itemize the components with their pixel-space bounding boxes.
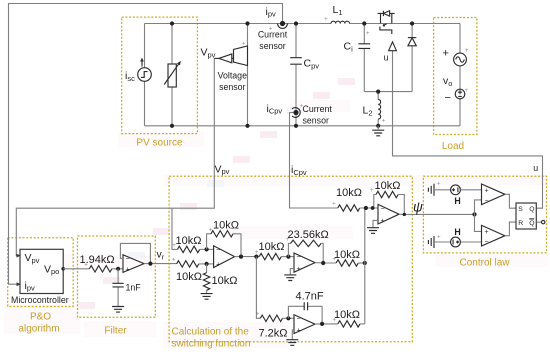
- node op4 feedback tap: [371, 206, 375, 210]
- wire ipv tap loop: [9, 4, 283, 285]
- svg-text:switching function: switching function: [172, 338, 251, 349]
- svg-text:+: +: [324, 17, 328, 23]
- svg-text:Current: Current: [258, 30, 288, 40]
- svg-text:+: +: [209, 227, 213, 233]
- node filter RC: [116, 267, 120, 271]
- ground (op1 divider): [201, 294, 213, 300]
- node top rail / diode branch: [410, 21, 414, 25]
- node top rail / sensor branch: [245, 21, 249, 25]
- svg-text:7.2kΩ: 7.2kΩ: [259, 327, 288, 339]
- comparator top: [482, 184, 505, 205]
- svg-text:sensor: sensor: [303, 115, 329, 125]
- svg-text:−: −: [445, 92, 451, 104]
- resistor 10k (iCpv input): [338, 205, 360, 211]
- op-amp U2: [294, 253, 315, 272]
- input pin Vpv: [17, 254, 22, 258]
- svg-text:−: −: [297, 316, 301, 323]
- svg-text:Q: Q: [529, 206, 534, 213]
- svg-text:10kΩ: 10kΩ: [334, 249, 360, 261]
- svg-text:sensor: sensor: [259, 41, 285, 51]
- wire op2 output: [315, 262, 336, 264]
- wire branch to integrator: [256, 257, 260, 319]
- node filter output: [148, 262, 152, 266]
- AC source vo: [454, 53, 467, 66]
- resistor 23.56k: [291, 240, 322, 246]
- wire op3 output: [315, 323, 338, 325]
- resistor 10k (op3 out): [338, 321, 360, 327]
- op3 plus to ground: [292, 330, 294, 340]
- current sensor ipv: [278, 24, 288, 29]
- node PV top / varistor: [170, 21, 174, 25]
- node op3 output: [320, 322, 324, 326]
- op1 feedback vertical: [207, 234, 211, 250]
- svg-text:10kΩ: 10kΩ: [336, 187, 362, 199]
- svg-text:u: u: [533, 163, 538, 173]
- node op2 output: [321, 261, 325, 265]
- wire psi output: [399, 213, 475, 215]
- wire Cpv branch: [295, 24, 297, 126]
- resistor 10k (vr input): [177, 261, 199, 267]
- watermark tint: [4, 78, 548, 348]
- wire gate signal u: [393, 51, 543, 209]
- Qbar terminal: [536, 221, 541, 223]
- isc arrow: [141, 61, 143, 67]
- svg-text:+: +: [332, 202, 336, 208]
- node op4 fb join: [403, 213, 406, 216]
- svg-text:+: +: [465, 48, 469, 54]
- node op3 minus: [286, 316, 290, 320]
- DC source (load): [455, 89, 465, 99]
- inductor L1: [331, 21, 349, 23]
- svg-text:algorithm: algorithm: [18, 323, 59, 334]
- resistor 10k (Vpv input): [178, 246, 200, 252]
- wire top rail: [145, 23, 461, 25]
- svg-text:+: +: [172, 258, 176, 264]
- current sensor iCpv: [292, 108, 300, 118]
- svg-text:−: −: [485, 198, 489, 205]
- svg-text:H: H: [454, 196, 460, 206]
- svg-text:Calculation of the: Calculation of the: [172, 327, 250, 338]
- svg-text:10kΩ: 10kΩ: [176, 235, 202, 247]
- svg-text:−: −: [485, 239, 489, 246]
- svg-text:ψ: ψ: [413, 200, 423, 215]
- svg-text:Current: Current: [303, 104, 333, 114]
- resistor 10k (op1 feedback): [211, 231, 233, 237]
- wire switch-cell bottom rail: [364, 91, 412, 93]
- resistor 1.94k: [89, 266, 112, 272]
- svg-text:10kΩ: 10kΩ: [259, 241, 285, 253]
- op4 plus to ground: [373, 220, 378, 227]
- node Vpo pin: [61, 267, 65, 271]
- wire vr output: [144, 263, 177, 265]
- svg-text:+: +: [255, 250, 259, 256]
- wire bottom rail: [145, 125, 461, 127]
- svg-text:R: R: [518, 220, 523, 227]
- switching function box: [169, 176, 412, 342]
- svg-text:10kΩ: 10kΩ: [213, 219, 239, 231]
- current source isc: [138, 68, 152, 82]
- wire Ci branch: [363, 24, 365, 92]
- resistor 10k (op4 feedback): [376, 191, 398, 197]
- svg-text:sensor: sensor: [219, 82, 245, 92]
- svg-text:+: +: [443, 48, 449, 60]
- node summing vertical / op2: [363, 261, 367, 265]
- svg-text:Filter: Filter: [104, 326, 127, 337]
- wire L2 branch: [377, 92, 379, 126]
- wire psi to comparators: [475, 200, 482, 232]
- svg-text:+: +: [256, 312, 260, 318]
- wire Vpo to filter: [63, 268, 89, 270]
- svg-text:+: +: [216, 262, 220, 269]
- svg-text:+: +: [286, 237, 290, 243]
- svg-text:4.7nF: 4.7nF: [296, 290, 324, 302]
- op4 feedback loop: [374, 195, 376, 209]
- node bottom rail / Cpv: [294, 124, 298, 128]
- resistor 10k (op2 input): [259, 253, 281, 259]
- capacitor Cpv: [290, 58, 302, 64]
- svg-text:+: +: [172, 243, 176, 249]
- wire Vpv signal: [16, 58, 214, 255]
- svg-text:+: +: [382, 118, 386, 124]
- resistor 10k (op2 out): [336, 260, 358, 266]
- ground (H top): [428, 184, 434, 196]
- wire isc branch: [144, 24, 146, 126]
- svg-text:+: +: [297, 328, 301, 335]
- op-amp U4 (summing): [378, 204, 399, 224]
- op2 feedback loop: [288, 243, 290, 256]
- microcontroller block: [20, 249, 63, 293]
- gate input arrow u: [389, 42, 397, 51]
- svg-text:−: −: [216, 247, 220, 254]
- wire Vpv branch to opamp: [172, 208, 178, 249]
- PV source box: [122, 17, 198, 134]
- SR flip-flop: [516, 203, 536, 229]
- svg-text:+: +: [485, 188, 489, 195]
- svg-text:Microcontroller: Microcontroller: [11, 295, 69, 305]
- svg-text:−: −: [381, 205, 385, 212]
- MOSFET gate bracket: [380, 27, 392, 34]
- ground (L2): [372, 130, 384, 136]
- node cell rail / L2: [376, 90, 380, 94]
- wire voltage-sensor branch: [247, 24, 249, 126]
- svg-text:−: −: [126, 256, 130, 263]
- svg-text:H: H: [454, 227, 460, 237]
- node summing junction: [364, 206, 368, 210]
- svg-text:+: +: [465, 88, 469, 94]
- transistor (MOSFET with body diode): [378, 13, 395, 23]
- wire varistor branch: [171, 24, 173, 126]
- comparator bottom: [482, 225, 505, 246]
- ground (op4): [367, 228, 379, 234]
- filter feedback wire: [120, 243, 150, 263]
- node psi branch: [472, 212, 476, 216]
- svg-text:+: +: [297, 266, 301, 273]
- op-amp U1 (difference): [214, 246, 235, 268]
- Control law box: [423, 176, 546, 253]
- resistor 10k to ground: [203, 273, 209, 291]
- svg-text:PV source: PV source: [136, 137, 183, 148]
- svg-text:10kΩ: 10kΩ: [334, 309, 360, 321]
- svg-text:+: +: [366, 31, 370, 37]
- wire summing vertical: [364, 208, 366, 324]
- node op1 fb join: [239, 255, 243, 259]
- svg-text:+: +: [84, 262, 88, 268]
- capacitor 1nF: [117, 269, 119, 307]
- wire comparator bottom to R: [505, 222, 516, 236]
- wire iCpv tap: [290, 113, 338, 209]
- svg-text:10kΩ: 10kΩ: [212, 275, 238, 287]
- ground (op3): [286, 340, 298, 346]
- node op1 minus: [205, 247, 209, 251]
- svg-text:+: +: [381, 218, 385, 225]
- input pin ipv: [17, 282, 22, 286]
- capacitor 4.7nF: [304, 302, 307, 310]
- P&O algorithm box: [8, 238, 74, 307]
- svg-text:+: +: [437, 182, 441, 188]
- svg-text:u: u: [384, 53, 389, 63]
- wire op1 output: [235, 256, 260, 258]
- Filter box: [78, 236, 156, 317]
- svg-text:23.56kΩ: 23.56kΩ: [288, 229, 329, 241]
- capacitor Ci: [358, 44, 370, 49]
- svg-text:+: +: [269, 27, 273, 33]
- op3 feedback with 4.7nF: [288, 306, 322, 324]
- op2 plus to ground: [290, 269, 294, 275]
- svg-text:Control law: Control law: [459, 257, 510, 268]
- node bottom rail / sensor branch: [245, 124, 249, 128]
- svg-text:10kΩ: 10kΩ: [176, 271, 202, 283]
- wire comparator top to S: [505, 194, 516, 208]
- voltage sensor symbol: [234, 46, 248, 66]
- svg-text:S: S: [518, 206, 523, 213]
- ground (H bottom): [428, 236, 434, 248]
- svg-text:+: +: [370, 188, 374, 194]
- op-amp filter: [123, 255, 144, 273]
- wire diode branch: [411, 24, 413, 92]
- svg-text:10kΩ: 10kΩ: [375, 180, 401, 192]
- diode D: [408, 37, 416, 39]
- svg-text:+: +: [333, 257, 337, 263]
- svg-text:−: −: [297, 254, 301, 261]
- node op1 plus: [205, 262, 209, 266]
- node top rail / Ci: [362, 21, 366, 25]
- op-amp U3 (integrator): [294, 315, 315, 334]
- svg-text:+: +: [242, 42, 246, 48]
- svg-text:+: +: [437, 235, 441, 241]
- svg-text:1nF: 1nF: [126, 283, 142, 293]
- svg-text:Load: Load: [442, 141, 464, 152]
- svg-text:P&O: P&O: [30, 311, 51, 322]
- node top rail / Cpv: [294, 21, 298, 25]
- varistor (nonlinear resistor): [168, 64, 176, 87]
- node bottom rail / L2: [376, 124, 380, 128]
- wire load branch: [459, 24, 461, 126]
- svg-text:+: +: [485, 229, 489, 236]
- ground (op2): [284, 275, 296, 281]
- svg-text:+: +: [299, 103, 303, 109]
- Load box: [434, 18, 477, 135]
- svg-text:+: +: [333, 317, 337, 323]
- node op2 minus: [286, 255, 290, 259]
- node op1 output branch: [254, 255, 258, 259]
- resistor 10k to ground (op1) lead: [206, 264, 208, 273]
- svg-text:Voltage: Voltage: [218, 70, 247, 80]
- ground (filter): [112, 307, 124, 313]
- inductor L2: [378, 100, 380, 120]
- svg-text:Q: Q: [529, 220, 534, 227]
- node PV bottom / varistor: [170, 124, 174, 128]
- svg-text:+: +: [126, 266, 130, 273]
- resistor 7.2k: [260, 315, 282, 321]
